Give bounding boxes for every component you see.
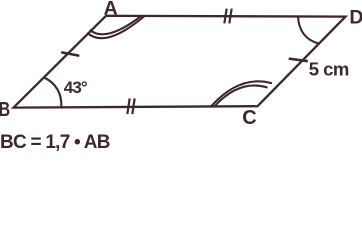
svg-text:B: B bbox=[0, 99, 10, 121]
svg-text:5 cm: 5 cm bbox=[309, 58, 349, 79]
svg-text:BC = 1,7 • AB: BC = 1,7 • AB bbox=[0, 132, 110, 153]
svg-text:D: D bbox=[349, 7, 362, 29]
svg-text:C: C bbox=[242, 107, 256, 129]
svg-text:43°: 43° bbox=[64, 78, 88, 97]
svg-text:A: A bbox=[104, 0, 118, 20]
